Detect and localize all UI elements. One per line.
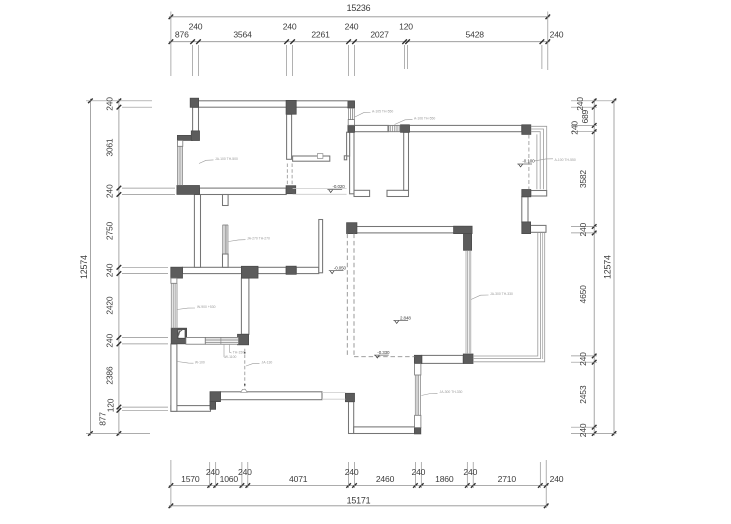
window band R5 with end box — [186, 337, 239, 344]
wall top row R0 from A to C — [193, 101, 355, 107]
dimension right chain total line 12574 — [603, 99, 617, 436]
pier D at R1 — [401, 125, 410, 133]
svg-text:2453: 2453 — [578, 385, 588, 404]
svg-text:15236: 15236 — [347, 3, 371, 13]
wall R4 row left of pier G — [182, 267, 241, 273]
svg-text:3582: 3582 — [578, 170, 588, 189]
pier left at R4 — [171, 267, 183, 278]
label window I — [471, 292, 513, 300]
svg-text:120: 120 — [106, 398, 116, 412]
pier left at R5 with door nook — [171, 328, 186, 344]
wall small room right — [404, 132, 409, 190]
pier F bottom-left step — [210, 392, 221, 410]
svg-text:240: 240 — [345, 467, 359, 477]
window bay top-left with end box — [177, 140, 182, 185]
window column H with end boxes — [415, 364, 421, 428]
svg-text:1570: 1570 — [181, 474, 200, 484]
svg-text:JA-300 TH-330: JA-300 TH-330 — [440, 390, 463, 394]
window hatch wardrobe partition — [223, 225, 229, 254]
pier C top — [348, 102, 355, 109]
svg-text:1060: 1060 — [220, 474, 239, 484]
dimension right chain labels — [570, 97, 591, 437]
svg-text:JA-130: JA-130 — [262, 360, 273, 364]
pier C at bottom wall — [345, 393, 354, 401]
svg-text:240: 240 — [345, 22, 359, 32]
pier G at R4 — [241, 266, 258, 278]
pier I at R3 L-shape — [454, 226, 473, 250]
svg-text:240: 240 — [550, 474, 564, 484]
svg-text:240: 240 — [238, 467, 252, 477]
svg-text:5428: 5428 — [466, 29, 485, 39]
dimension bottom chain labels — [181, 467, 564, 484]
window in R1 row — [388, 125, 401, 131]
svg-text:877: 877 — [98, 412, 108, 426]
svg-text:W-100: W-100 — [195, 361, 205, 365]
dashed opening room1 right wall — [287, 164, 292, 186]
svg-text:240: 240 — [105, 97, 115, 111]
dimension left chain labels — [98, 97, 116, 426]
level mark 2.848 living centre — [393, 315, 411, 323]
wall R3 row C to I pier — [354, 227, 463, 233]
wall A below top-left corner — [193, 107, 199, 131]
svg-text:240: 240 — [105, 184, 115, 198]
dimension left chain extension lines — [86, 101, 175, 434]
wall R1 row D to E pier — [409, 125, 521, 131]
wall wardrobe stub bottom — [223, 254, 229, 267]
label window balcony — [535, 158, 576, 162]
pier A mid bay top — [191, 131, 199, 141]
svg-text:3061: 3061 — [105, 138, 115, 157]
svg-text:240: 240 — [550, 29, 564, 39]
label W-100 band — [224, 345, 236, 359]
dimension right chain segment line — [592, 99, 597, 436]
dimension top chain segment line — [169, 39, 550, 44]
svg-text:A-100 TH-550: A-100 TH-550 — [555, 158, 576, 162]
faint threshold lines bottom wall opening — [322, 392, 345, 399]
wall R6 row H to I — [422, 355, 464, 363]
door leaf in nook — [178, 329, 185, 338]
svg-text:240: 240 — [105, 334, 115, 348]
level mark -0.050 living — [329, 265, 347, 273]
dimension bottom chain total line 15171 — [169, 495, 549, 508]
svg-text:2460: 2460 — [376, 474, 395, 484]
svg-text:-0.050: -0.050 — [334, 265, 347, 270]
label window R1 — [395, 117, 436, 125]
wall wardrobe stub top — [223, 195, 229, 206]
svg-text:4071: 4071 — [289, 474, 308, 484]
svg-text:240: 240 — [578, 423, 588, 437]
wall bottom protrusion bottom — [354, 427, 415, 434]
wall C upper narrow companion — [344, 132, 349, 160]
svg-text:2.848: 2.848 — [400, 315, 411, 320]
door notch room2 bottom wall — [317, 154, 323, 159]
svg-text:-0.100: -0.100 — [522, 159, 535, 164]
svg-text:240: 240 — [463, 467, 477, 477]
label left wall bottom — [177, 361, 205, 365]
wall stub right of balcony lower pier — [531, 191, 547, 197]
svg-text:A-106 TH-550: A-106 TH-550 — [414, 117, 435, 121]
pier E at R3 — [522, 222, 531, 234]
svg-text:240: 240 — [206, 467, 220, 477]
wall R2 row bedroom1 bottom — [199, 188, 286, 194]
svg-text:1860: 1860 — [435, 474, 454, 484]
window wall bottom-right nested lines — [473, 233, 545, 362]
window left lower with end box — [171, 278, 177, 328]
pier B at R2 — [286, 186, 296, 194]
dimension left chain segment line — [117, 99, 122, 436]
svg-text:2386: 2386 — [105, 366, 115, 385]
dashed bathroom door line — [244, 349, 246, 391]
svg-text:15171: 15171 — [347, 495, 371, 505]
svg-text:12574: 12574 — [79, 255, 89, 279]
faint threshold lines corridor — [293, 188, 347, 194]
label bedroom1 wall — [199, 157, 238, 164]
dimension left chain total line 12574 — [79, 99, 93, 436]
dashed removed wall C column — [347, 234, 354, 357]
pier B top — [286, 100, 296, 114]
level mark -0.020 corridor — [327, 184, 345, 192]
wall bottom middle row — [220, 392, 322, 400]
wall bottom-left room bottom — [171, 406, 211, 412]
pier G at R5 — [238, 334, 249, 345]
svg-text:240: 240 — [105, 263, 115, 277]
wall small room bottom left segment — [354, 190, 370, 196]
wall C left wall of big top-right room — [350, 132, 354, 194]
svg-text:240: 240 — [570, 121, 580, 135]
svg-text:2261: 2261 — [311, 29, 330, 39]
svg-text:876: 876 — [175, 29, 189, 39]
pier E at R1 balcony top — [522, 125, 531, 135]
svg-text:12574: 12574 — [603, 255, 613, 279]
svg-text:240: 240 — [578, 222, 588, 236]
pier H at R6 — [414, 355, 421, 363]
wall small room bottom right segment — [387, 190, 409, 196]
level mark -0.100 balcony — [517, 159, 535, 167]
svg-text:2420: 2420 — [105, 296, 115, 315]
svg-text:JA-100 TH-500: JA-100 TH-500 — [215, 157, 238, 161]
wall bedroom2 right stub — [319, 220, 323, 273]
svg-text:JA-300 TH-330: JA-300 TH-330 — [490, 292, 513, 296]
wall bedroom2 left — [194, 195, 200, 268]
dimension top chain extension lines — [171, 12, 548, 77]
svg-text:240: 240 — [575, 97, 585, 111]
svg-text:689: 689 — [580, 109, 590, 123]
dimension bottom chain extension lines — [171, 460, 546, 508]
window column C 689 — [348, 108, 354, 125]
level mark -0.330 kitchen — [374, 350, 390, 358]
wall bottom protrusion left — [349, 402, 354, 434]
pier H bottom end — [415, 428, 421, 434]
svg-text:W-900 +530: W-900 +530 — [197, 305, 216, 309]
dimension bottom chain segment line — [169, 483, 549, 488]
label window C — [355, 109, 394, 117]
svg-text:W-1100: W-1100 — [225, 355, 237, 359]
pier bay bottom at R2 — [177, 186, 200, 195]
label window left — [177, 305, 215, 310]
svg-text:TH-150: TH-150 — [233, 350, 244, 354]
dimension right chain extension lines — [571, 101, 617, 434]
wall B between room1 and room2 — [287, 114, 292, 159]
window column I — [466, 250, 471, 354]
wall left outer lower — [171, 344, 177, 411]
wall R1 row C to window — [354, 125, 388, 131]
svg-text:240: 240 — [189, 22, 203, 32]
window balcony top-right nested lines — [531, 126, 547, 190]
label window H — [421, 390, 462, 395]
pier B at R4 — [286, 266, 296, 274]
pier C at R1 — [348, 125, 355, 132]
dashed balcony door line — [528, 135, 530, 190]
svg-text:JA-270 TH-270: JA-270 TH-270 — [247, 237, 270, 241]
svg-text:240: 240 — [578, 352, 588, 366]
svg-text:2750: 2750 — [105, 221, 115, 240]
wall R4 row B to stub — [296, 267, 319, 273]
pier I at R6 — [463, 354, 473, 364]
svg-text:2027: 2027 — [370, 29, 389, 39]
label bathroom door — [246, 360, 272, 366]
dimension top chain labels — [175, 22, 564, 40]
pier top-left A — [190, 98, 198, 107]
pier bay window top cap — [177, 135, 192, 140]
wall bathroom right vertical — [241, 278, 249, 334]
wall right side below balcony — [522, 197, 528, 222]
label W-150 — [230, 345, 245, 355]
dashed line at R6 level — [354, 356, 415, 358]
svg-text:A-105 TH-550: A-105 TH-550 — [372, 109, 393, 113]
label wardrobe hatch — [229, 237, 271, 242]
svg-text:-0.330: -0.330 — [377, 350, 390, 355]
pier E balcony bottom — [522, 190, 531, 197]
pier C at R3 — [347, 223, 357, 234]
svg-text:2710: 2710 — [498, 474, 517, 484]
wall room2 bottom — [293, 156, 330, 161]
svg-text:-0.020: -0.020 — [333, 184, 346, 189]
svg-text:3564: 3564 — [233, 29, 252, 39]
svg-text:4650: 4650 — [578, 285, 588, 304]
door notch bottom middle wall — [241, 389, 248, 392]
svg-text:240: 240 — [412, 467, 426, 477]
wall R4 row G to B — [258, 267, 286, 273]
wall R3 stub right of pier — [531, 225, 547, 232]
svg-text:120: 120 — [399, 22, 413, 32]
dimension top chain total line 15236 — [169, 3, 550, 19]
svg-text:240: 240 — [283, 22, 297, 32]
